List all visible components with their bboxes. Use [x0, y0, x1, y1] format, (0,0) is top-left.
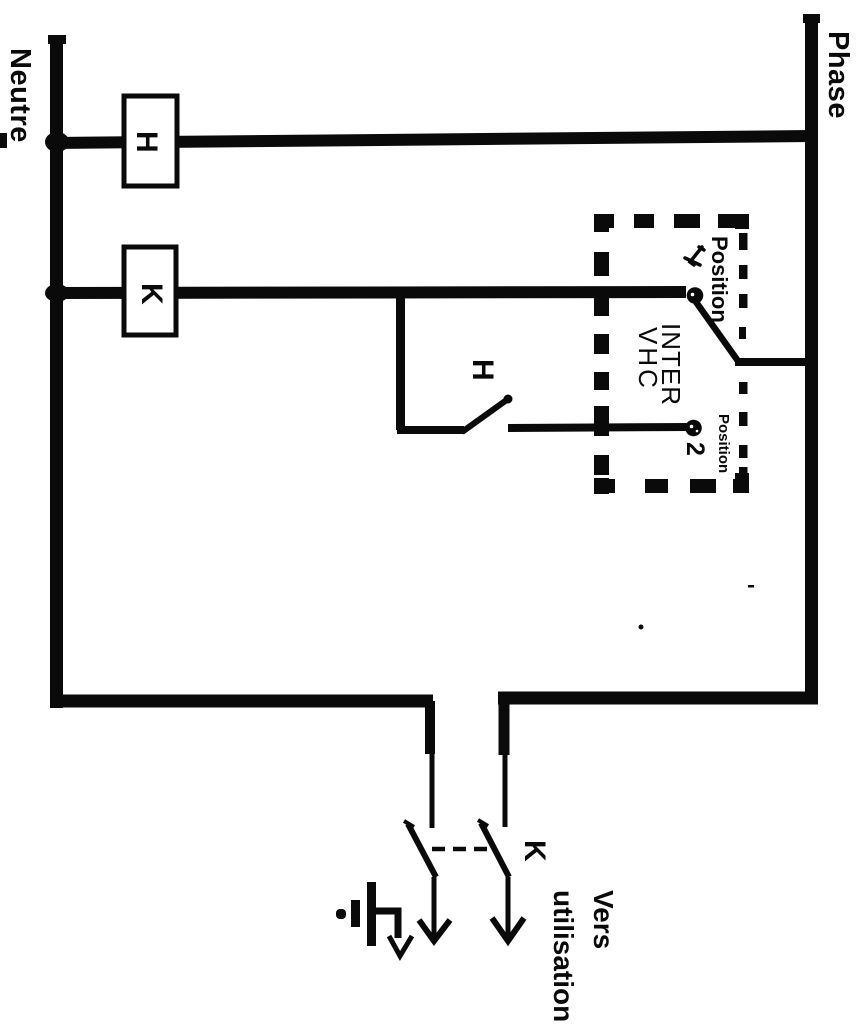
- terminal position 2: [685, 420, 702, 437]
- svg-text:Position: Position: [707, 236, 732, 323]
- label 1 (handwritten): [685, 247, 704, 265]
- wire bottom left segment: [51, 695, 433, 708]
- switch K pole 1 lever: [408, 824, 436, 877]
- svg-text:H: H: [466, 359, 499, 381]
- svg-text:Vers: Vers: [588, 890, 619, 949]
- wire K row: [52, 292, 686, 293]
- wire branch down to switch H: [396, 293, 405, 430]
- switch H lever: [462, 395, 513, 433]
- wire pole 2 drop (thin): [503, 755, 508, 827]
- dashed enclosure : bottom edge: [594, 479, 749, 493]
- switch K pole 2 lever: [481, 823, 509, 877]
- svg-text:K: K: [518, 840, 551, 862]
- wire pole 1 drop (thick): [425, 701, 435, 754]
- svg-text:Position: Position: [715, 414, 732, 473]
- wire switch H right contact to position 2: [508, 427, 690, 428]
- wire phase bus (vertical right): [803, 14, 820, 700]
- wire bottom right segment: [498, 692, 818, 705]
- scan mark left edge: [0, 133, 7, 148]
- wire H row: [52, 136, 812, 143]
- wire lever to phase: [735, 358, 813, 366]
- dashed enclosure INTER VHC : top edge: [594, 214, 744, 228]
- coil H (box): [124, 96, 177, 186]
- arrow ground: [389, 936, 412, 956]
- scan speck 1: [639, 625, 644, 630]
- wire switch H left contact: [397, 426, 464, 434]
- svg-text:utilisation: utilisation: [548, 890, 579, 1022]
- node junction H-row on neutre: [45, 132, 69, 152]
- ground branch elbow: [375, 911, 398, 938]
- arrow pole 2: [492, 877, 524, 941]
- terminal position 1: [687, 287, 704, 304]
- coil K (box): [124, 247, 176, 335]
- svg-text:H: H: [130, 131, 163, 153]
- switch VHC lever from position 1: [696, 302, 738, 361]
- switch K pole 1 contact tick: [404, 821, 414, 827]
- wire pole 2 drop (thick): [499, 698, 510, 755]
- scan speck 2: [748, 585, 754, 588]
- dashed enclosure : left edge: [594, 214, 609, 494]
- node junction K-row on neutre: [45, 284, 69, 302]
- svg-text:2: 2: [681, 442, 709, 456]
- svg-text:Phase: Phase: [822, 31, 854, 119]
- svg-text:VHC: VHC: [633, 327, 663, 391]
- dashed enclosure : right edge: [735, 214, 749, 487]
- svg-text:K: K: [135, 283, 168, 305]
- wire neutre bus (vertical left): [48, 35, 66, 708]
- switch K pole 2 contact tick: [478, 820, 488, 826]
- svg-text:Neutre: Neutre: [4, 48, 36, 143]
- coupling dashed link K: [432, 847, 492, 852]
- wire pole 1 drop (thin): [430, 754, 435, 828]
- ground symbol: [336, 882, 376, 946]
- arrow pole 1: [419, 877, 450, 941]
